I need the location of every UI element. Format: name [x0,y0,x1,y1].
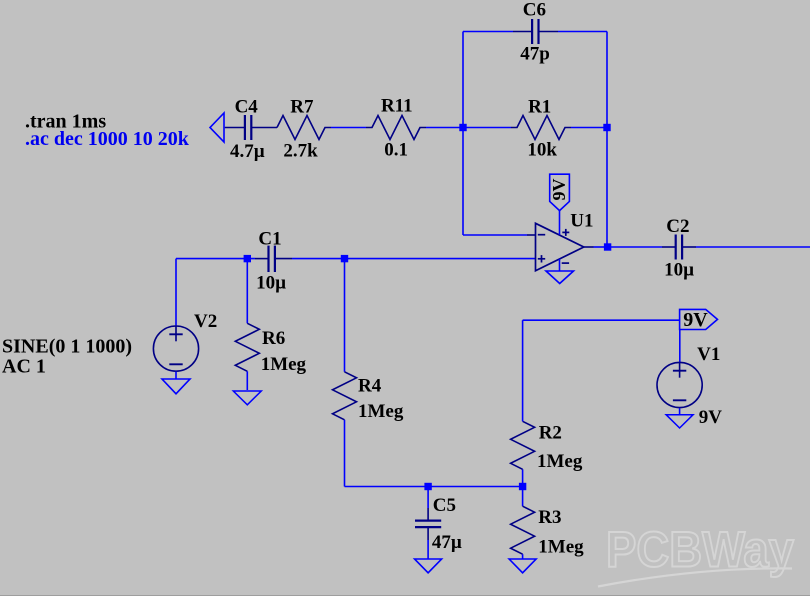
ground V1 [666,415,693,428]
watermark PCBWay [598,522,794,587]
junction R4 node [341,255,348,262]
svg-text:9V: 9V [683,309,708,331]
capacitor C2 [662,235,696,260]
net flag 9V right [680,309,718,331]
svg-text:R11: R11 [381,95,413,116]
svg-text:C1: C1 [258,229,281,250]
ground op-amp [546,271,574,284]
wire C5 to bottom rail [427,487,429,509]
resistor R3 [511,506,535,554]
wire node A down to inverting input [462,128,464,236]
wire R2 top to 9V flag [523,319,680,321]
svg-text:R7: R7 [290,97,314,118]
junction output node [604,243,611,250]
svg-text:10k: 10k [527,140,557,161]
wire R7 to R11 [331,127,366,129]
wire V2 to rail [175,259,177,326]
wire middle rail left [176,258,255,260]
junction C1-R6 node [244,255,251,262]
wire R6 to rail [246,259,248,324]
junction R2-R3 node [519,483,526,490]
junction node B [603,124,610,131]
wire middle rail right [292,258,536,260]
wire V2 to ground [175,372,177,379]
resistor R2 [511,421,535,469]
net flag 9V above op-amp [549,174,570,210]
wire flag to V1 [679,330,681,363]
voltage source V1 [657,362,702,407]
wire node A to R1 [463,127,511,129]
capacitor C6 [513,19,558,44]
svg-text:47µ: 47µ [432,532,462,553]
wire R11 to node A [426,127,463,129]
capacitor C5 [415,508,441,540]
svg-text:2.7k: 2.7k [283,141,318,162]
svg-text:V1: V1 [697,344,720,365]
svg-text:C6: C6 [523,0,546,21]
wire right vertical from C6 loop to output node [606,32,608,248]
ground V2 [162,379,190,394]
resistor R1 [511,116,571,140]
svg-text:AC 1: AC 1 [2,355,46,377]
wire top loop right segment [558,31,607,33]
wire R2 up [522,320,524,421]
voltage source V2 [153,326,198,371]
svg-text:9V: 9V [549,179,569,201]
wire op-amp V+ pin [559,210,561,234]
svg-text:1Meg: 1Meg [538,537,584,558]
ground C5 [415,559,442,573]
junction C5 node [424,483,431,490]
svg-text:C2: C2 [666,216,689,237]
wire C2 to right edge [696,246,810,248]
svg-text:.ac dec 1000 10 20k: .ac dec 1000 10 20k [25,128,190,150]
junction node A [459,124,466,131]
op-amp U1 [536,223,584,270]
resistor R11 [366,116,426,140]
wire output to C2 [607,246,662,248]
wire top loop left segment [463,31,513,33]
resistor R7 [277,116,331,140]
wire to inverting input [463,234,527,236]
wire op-amp output [584,246,594,248]
svg-text:1Meg: 1Meg [358,401,404,422]
wire V1 to ground [679,408,681,415]
svg-text:47p: 47p [520,44,550,65]
svg-text:V2: V2 [194,311,217,332]
wire R3 to bottom rail [522,487,524,507]
svg-text:9V: 9V [699,407,723,428]
capacitor C4 [225,115,277,140]
svg-text:U1: U1 [570,211,593,232]
wire R6 to ground [246,371,248,390]
wire bottom rail [345,486,523,488]
input port arrow [210,113,224,142]
svg-text:10µ: 10µ [664,260,694,281]
svg-text:R3: R3 [538,507,561,528]
svg-text:1Meg: 1Meg [261,354,307,375]
svg-text:10µ: 10µ [256,273,286,294]
wire R2 to bottom rail [522,469,524,486]
wire R4 to rail [344,259,346,372]
ground R3 [509,559,536,573]
svg-text:R6: R6 [262,328,285,349]
resistor R6 [235,323,259,371]
svg-text:C5: C5 [433,495,456,516]
capacitor C1 [255,246,292,272]
wire C5 to ground [427,540,429,559]
wire R4 down to bottom rail [344,420,346,487]
bottom edge line [0,595,810,596]
wire op-amp V- pin [559,259,561,271]
svg-text:1Meg: 1Meg [537,451,583,472]
resistor R4 [333,372,357,420]
svg-text:4.7µ: 4.7µ [230,141,265,162]
svg-text:SINE(0 1 1000): SINE(0 1 1000) [2,336,132,358]
wire left vertical of C6 loop [462,32,464,128]
svg-text:R2: R2 [539,423,562,444]
ground R6 [233,391,261,405]
wire R1 to right vertical [571,127,607,129]
svg-text:R4: R4 [358,376,382,397]
svg-text:R1: R1 [528,97,551,118]
svg-text:0.1: 0.1 [384,140,408,161]
svg-text:C4: C4 [235,97,259,118]
wire R3 to ground [522,554,524,559]
